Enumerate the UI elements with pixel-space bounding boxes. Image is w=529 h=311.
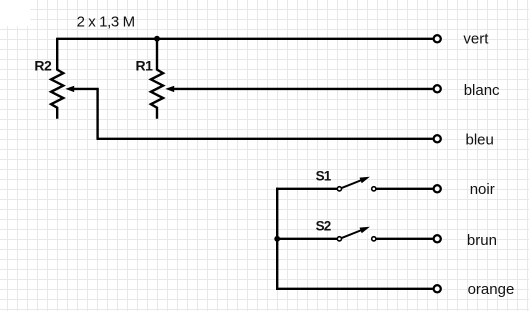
resistor R2: [51, 38, 63, 119]
terminal vert: [434, 35, 441, 42]
wire: bleu net: [97, 138, 433, 140]
switch S1 pivot contact: [337, 187, 341, 191]
wire: brun row, S2 contact to terminal: [374, 238, 433, 240]
svg-text:orange: orange: [468, 281, 515, 298]
svg-text:brun: brun: [467, 232, 497, 249]
terminal blanc: [434, 85, 441, 92]
terminal noir: [434, 185, 441, 192]
terminal orange: [434, 285, 441, 292]
switch S2 blade with arrow: [342, 227, 370, 238]
svg-text:S1: S1: [316, 169, 332, 184]
svg-text:bleu: bleu: [466, 132, 494, 149]
terminal bleu: [434, 135, 441, 142]
svg-text:noir: noir: [470, 181, 495, 198]
svg-text:2 x 1,3 M: 2 x 1,3 M: [77, 14, 135, 31]
wire: noir row, bus to switch S1 pivot: [276, 188, 339, 190]
svg-text:R2: R2: [34, 58, 52, 74]
wire: vert net (top horizontal): [57, 38, 432, 40]
switch S1 fixed contact: [372, 187, 376, 191]
wire: brun row, bus to switch S2 pivot: [276, 238, 339, 240]
terminal brun: [434, 235, 441, 242]
svg-text:blanc: blanc: [464, 82, 500, 99]
node junction on vert wire at R1 top: [154, 36, 160, 42]
switch S1 blade with arrow: [342, 177, 370, 188]
wire: noir row, S1 contact to terminal: [374, 188, 433, 190]
switch S2 fixed contact: [372, 237, 376, 241]
svg-text:S2: S2: [316, 218, 331, 233]
svg-text:vert: vert: [463, 31, 489, 48]
switch S2 pivot contact: [337, 237, 341, 241]
wire: blanc net: [174, 88, 433, 90]
wire: bus from S1 row down to orange row: [277, 188, 432, 289]
svg-text:R1: R1: [136, 58, 154, 74]
node junction on bus at S2 row: [274, 236, 280, 242]
blank patch top-left: [0, 0, 30, 26]
wiper arrow of R1 (from blanc wire): [165, 86, 174, 92]
resistor R1: [151, 38, 163, 119]
wiper arrow of R2 + wire to bleu net: [65, 86, 97, 139]
